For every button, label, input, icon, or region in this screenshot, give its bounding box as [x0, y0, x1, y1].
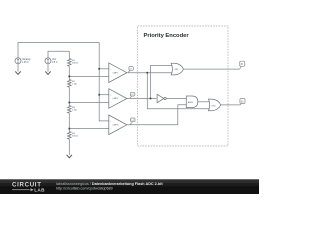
wire node B to CMP2 minus: [69, 102, 109, 104]
node flag D2: [130, 92, 135, 98]
wire ladder segment top: [68, 51, 70, 58]
wire CMP1 branch to OR2 input b: [147, 73, 209, 109]
wire ladder R3-R4: [68, 113, 70, 131]
voltage source V1 Vanalog: [15, 58, 21, 64]
wire CMP2 out to NOT1: [127, 98, 157, 100]
wire Vref top to ladder: [48, 51, 69, 58]
not gate NOT1: [157, 94, 166, 102]
wire ladder R2-R3: [68, 87, 70, 105]
label R3 value: [72, 107, 77, 112]
label AND1: [188, 101, 194, 104]
node B junction: [68, 102, 70, 104]
label R1 value: [72, 60, 78, 65]
wire CMP2 branch to OR1 input a: [151, 66, 173, 99]
wire OR1 out to flag B1: [184, 68, 240, 70]
wire Vref bottom to ground: [47, 64, 49, 72]
comparator CMP3: [109, 115, 127, 135]
label OR1: [174, 69, 179, 71]
svg-text:500 Ω: 500 Ω: [72, 62, 78, 64]
label CMP3: [110, 121, 119, 130]
label OR2: [212, 105, 217, 107]
svg-text:2.5 V: 2.5 V: [52, 62, 58, 64]
svg-text:500 Ω: 500 Ω: [72, 135, 78, 137]
CircuitLab logo: [12, 182, 45, 193]
wire bus stub to CMP1 +: [99, 68, 109, 70]
wire ladder R4 to ground: [68, 139, 70, 155]
svg-text:Priority Encoder: Priority Encoder: [144, 33, 190, 39]
label CMP1: [110, 69, 119, 78]
bus junction CMP2+: [98, 94, 100, 96]
resistor R4: [68, 132, 72, 140]
label V1 Vanalog value: [22, 59, 31, 64]
node flag D3: [130, 118, 135, 125]
resistor R1: [68, 59, 72, 67]
comparator CMP1: [109, 63, 127, 83]
node flag D1: [128, 67, 133, 73]
svg-text:labrallssnorwegicus / Datenban: labrallssnorwegicus / Datenbankverarbeit…: [56, 182, 163, 186]
wire node A to CMP1 minus: [69, 75, 109, 77]
wire OR2 out to flag B0: [221, 104, 241, 106]
svg-text:CMP3: CMP3: [112, 124, 119, 126]
resistor R2: [68, 80, 72, 88]
footer text: [56, 182, 163, 186]
priority encoder box: [138, 26, 229, 146]
wire AND1 out to OR2 input a: [198, 101, 209, 103]
junction CMP1 branch: [146, 72, 148, 74]
svg-text:CMP1: CMP1: [112, 72, 119, 74]
ground (ladder): [67, 155, 72, 158]
node flag B0 (output): [240, 99, 245, 105]
voltage source V2 Vref: [45, 58, 51, 64]
junction CMP2 branch: [150, 98, 152, 100]
svg-text:CMP2: CMP2: [112, 98, 119, 100]
wire CMP1 out to OR1 input b: [127, 72, 172, 74]
wire Vanalog bottom to ground: [17, 64, 19, 72]
junction dots: [68, 68, 151, 130]
wire CMP3 out to AND1 input b: [127, 105, 187, 125]
svg-text:1.35 V: 1.35 V: [22, 62, 29, 64]
node flag B1 (output): [240, 61, 245, 69]
footer bar: [0, 179, 259, 194]
node C junction: [68, 128, 70, 130]
label R4 value: [72, 133, 78, 138]
wire ladder R1-R2: [68, 66, 70, 79]
label V2 Vref value: [52, 58, 58, 64]
wire bus stub to CMP2 +: [99, 94, 109, 96]
node A junction: [68, 76, 70, 78]
wire Vanalog top to bus: [18, 43, 109, 121]
svg-text:http://circuitlab.com/cpsfwdst: http://circuitlab.com/cpsfwdstq0689: [56, 186, 113, 190]
wire NOT1 out to AND1 input a: [166, 98, 186, 100]
comparator CMP2: [109, 89, 127, 109]
or gate OR2: [209, 99, 221, 111]
resistor R3: [68, 106, 72, 114]
or gate OR1: [171, 63, 183, 75]
svg-text:Vanalog: Vanalog: [22, 59, 31, 61]
label CMP2: [110, 94, 119, 103]
svg-text:1 kΩ: 1 kΩ: [72, 83, 77, 85]
wire node C to CMP3 minus: [69, 128, 109, 130]
label R2 value: [72, 81, 77, 86]
ground (Vanalog): [15, 71, 20, 74]
svg-text:LAB: LAB: [34, 187, 45, 192]
svg-text:1 kΩ: 1 kΩ: [72, 109, 77, 111]
ground (Vref): [45, 71, 50, 74]
and gate AND1: [186, 96, 198, 108]
bus junction CMP1+: [98, 68, 100, 70]
